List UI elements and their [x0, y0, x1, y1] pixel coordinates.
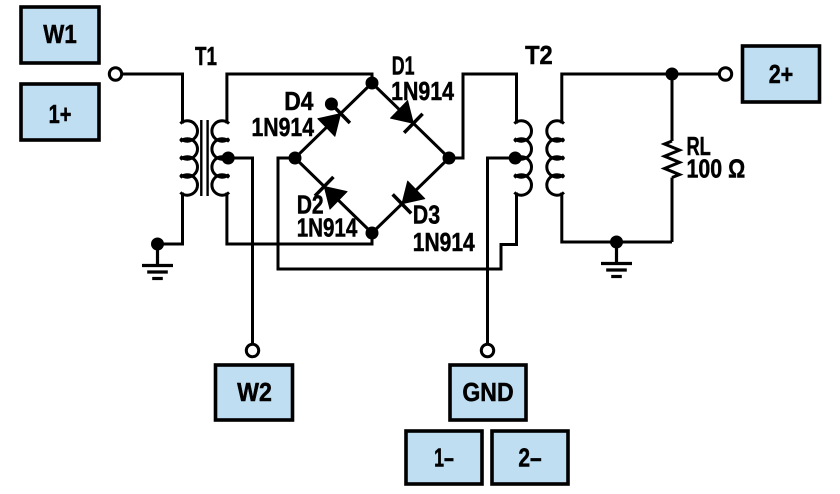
svg-text:100 Ω: 100 Ω	[687, 154, 746, 184]
svg-text:W2: W2	[237, 377, 272, 407]
svg-text:W1: W1	[43, 19, 76, 49]
svg-text:2+: 2+	[769, 59, 794, 89]
svg-text:T2: T2	[525, 40, 553, 70]
svg-text:T1: T1	[195, 41, 217, 71]
svg-text:1N914: 1N914	[297, 213, 358, 243]
svg-text:GND: GND	[462, 377, 513, 407]
svg-text:1–: 1–	[434, 443, 454, 473]
svg-text:1+: 1+	[49, 99, 72, 129]
svg-text:1N914: 1N914	[391, 76, 454, 106]
svg-text:1N914: 1N914	[252, 112, 315, 142]
svg-text:D3: D3	[413, 200, 440, 230]
svg-text:1N914: 1N914	[413, 227, 475, 257]
svg-text:2–: 2–	[518, 443, 541, 473]
